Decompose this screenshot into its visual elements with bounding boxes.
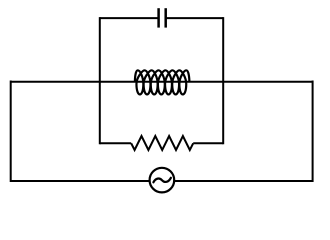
wire: inner left vertical: [99, 17, 101, 144]
wire: top branch left (node to capacitor): [100, 17, 158, 19]
wire: middle horizontal (inductor branch): [11, 81, 313, 83]
capacitor: [159, 8, 166, 27]
wire: outer left vertical: [10, 81, 12, 183]
AC source: [150, 168, 175, 193]
wire: bottom inner branch left (node to resistor): [100, 142, 131, 144]
wire: outer right vertical: [312, 81, 314, 183]
inductor: [135, 70, 190, 94]
wire: top branch right (capacitor to node): [166, 17, 223, 19]
wire: bottom inner branch right (resistor to node): [193, 142, 223, 144]
resistor: [131, 136, 193, 150]
wire: bottom horizontal: [11, 180, 313, 182]
wire: inner right vertical: [222, 17, 224, 144]
